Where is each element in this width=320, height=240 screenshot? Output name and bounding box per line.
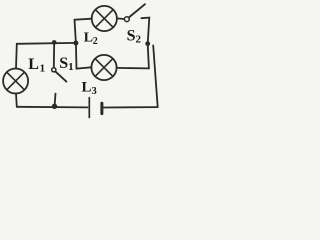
wire bottom rail left: [17, 106, 88, 109]
wire below L1: [15, 94, 18, 107]
wire L3 branch left: [76, 43, 91, 69]
wire L2 to S2: [117, 17, 124, 20]
switch S2 contact circle: [124, 17, 129, 22]
switch S2 blade: [129, 4, 145, 17]
wire middle rail: [17, 42, 76, 45]
paper background: [0, 0, 168, 124]
wire left vertical (rail to lamp L1): [15, 44, 18, 69]
node junction dot2: [73, 41, 78, 46]
switch S1 top wire: [53, 42, 55, 67]
switch S1 contact circle: [52, 68, 56, 72]
switch S1 blade: [55, 71, 66, 81]
lamp L1: [3, 69, 28, 94]
lamp L2: [92, 6, 117, 31]
battery cell (short thick plate): [100, 103, 103, 113]
wire right vertical (bottom to node): [153, 45, 158, 107]
wire top branch left riser: [75, 19, 92, 43]
node junction right: [145, 41, 150, 46]
wire bottom rail right: [104, 106, 158, 108]
battery cell (long plate): [88, 98, 90, 118]
wire L3 branch right: [117, 67, 149, 70]
switch S1 bottom wire: [54, 94, 57, 107]
wire L3 riser (node down to L3 branch): [148, 44, 149, 69]
node junction S1 bottom: [52, 104, 57, 109]
lamp L3: [91, 55, 116, 80]
wire riser from S2 corner down to node: [141, 18, 149, 44]
node junction dot1: [52, 40, 57, 45]
